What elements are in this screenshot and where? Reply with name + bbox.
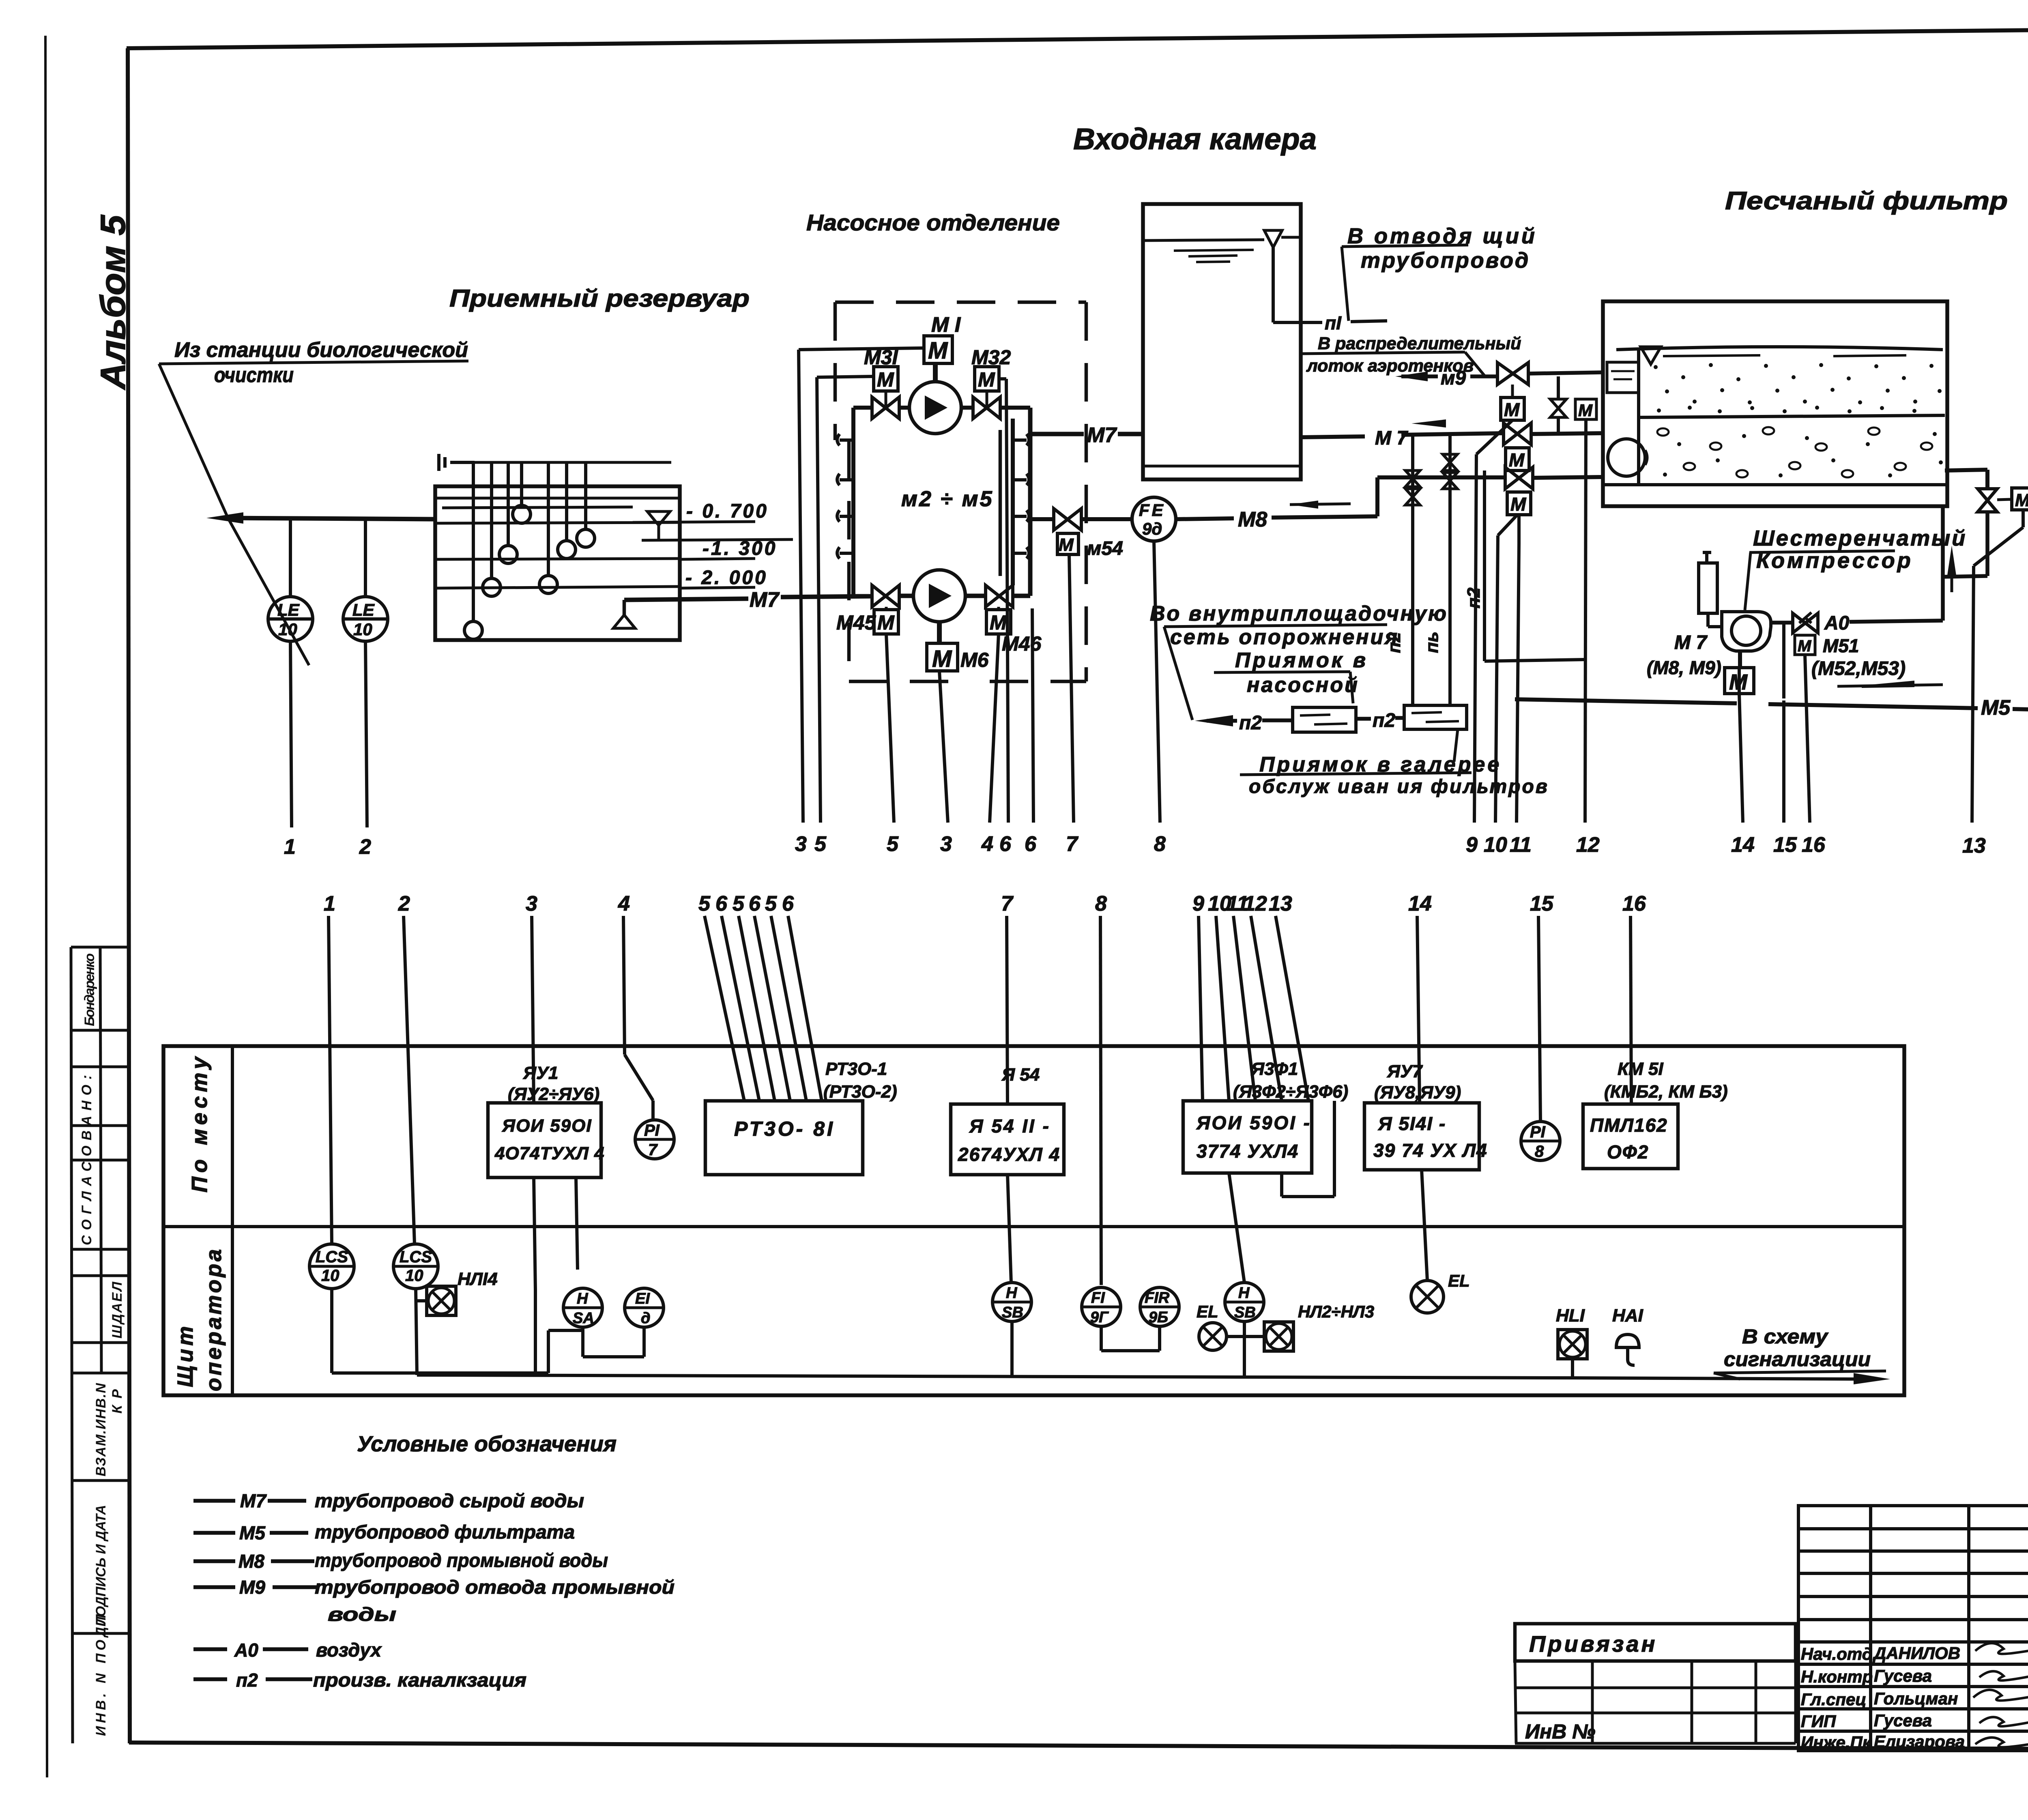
svg-text:M: M: [1798, 637, 1812, 655]
svg-text:10: 10: [278, 620, 297, 639]
svg-text:Бондаренко: Бондаренко: [82, 953, 97, 1026]
M5 line: [1515, 699, 1737, 703]
valve stack M9: [1497, 363, 1528, 385]
svg-text:м2 ÷ м5: м2 ÷ м5: [901, 487, 994, 511]
signature grid column: [1798, 1506, 2028, 1751]
EL lamp left of HL2: [1199, 1323, 1227, 1350]
PI 8 circle: [1521, 1122, 1560, 1160]
svg-text:8: 8: [1095, 892, 1107, 915]
table frame: [163, 1046, 1904, 1395]
LCS circles: [309, 1244, 354, 1289]
svg-text:14: 14: [1731, 833, 1755, 857]
svg-text:НLI: НLI: [1556, 1306, 1585, 1326]
svg-text:7: 7: [1001, 892, 1014, 915]
svg-text:H: H: [577, 1290, 589, 1307]
svg-text:ЯОИ 59OI -: ЯОИ 59OI -: [1196, 1112, 1311, 1133]
svg-text:НАI: НАI: [1612, 1306, 1643, 1326]
inlet pipe with arrow: [206, 512, 243, 524]
svg-text:(ЯУ2÷ЯУ6): (ЯУ2÷ЯУ6): [508, 1084, 599, 1104]
svg-text:12: 12: [1576, 833, 1600, 857]
wire stubs from terminals into panel: [329, 916, 1631, 1285]
svg-text:ЕI: ЕI: [635, 1290, 650, 1307]
privyazan cell: [1515, 1624, 1796, 1661]
sand filter tank outer: [1603, 301, 1947, 506]
svg-text:9Г: 9Г: [1090, 1309, 1109, 1326]
svg-text:Шестеренчатый: Шестеренчатый: [1753, 526, 1967, 550]
svg-text:5: 5: [814, 832, 827, 856]
svg-text:5: 5: [765, 892, 777, 915]
svg-text:9д: 9д: [1142, 519, 1162, 538]
svg-text:воды: воды: [328, 1603, 396, 1625]
svg-text:6: 6: [999, 832, 1012, 856]
bypass small valve on vertical: [1550, 399, 1566, 417]
svg-text:Из станции биологической: Из станции биологической: [174, 338, 468, 362]
svg-text:очистки: очистки: [214, 363, 294, 387]
water level mark funnel: [647, 511, 670, 540]
wiring in operator row: [332, 1101, 1573, 1378]
svg-text:Щит: Щит: [173, 1323, 198, 1387]
svg-text:3: 3: [526, 892, 537, 915]
p2 arrow and sumps: [1195, 715, 1233, 726]
svg-text:М8: М8: [1238, 508, 1267, 531]
svg-text:НЛI4: НЛI4: [458, 1269, 498, 1289]
svg-text:ЕL: ЕL: [1197, 1302, 1218, 1321]
svg-text:M: M: [877, 611, 895, 634]
overflow funnel: [1264, 230, 1282, 247]
svg-text:4: 4: [618, 892, 630, 915]
svg-text:PI: PI: [644, 1122, 660, 1139]
H/SB circle 2: [1225, 1283, 1264, 1321]
svg-text:9Б: 9Б: [1149, 1309, 1168, 1326]
svg-text:Я 54 II -: Я 54 II -: [969, 1115, 1051, 1137]
svg-text:OФ2: OФ2: [1607, 1141, 1649, 1162]
FI and FIR circles: [1082, 1287, 1121, 1326]
svg-text:(РТ3O-2): (РТ3O-2): [823, 1082, 897, 1102]
frame bottom border: [129, 1743, 2028, 1751]
HL2-HL3 lamp: [1264, 1322, 1293, 1351]
svg-text:M: M: [928, 337, 948, 364]
svg-text:трубопровод: трубопровод: [1361, 248, 1530, 273]
svg-text:M: M: [877, 368, 894, 391]
svg-text:Н.контр: Н.контр: [1801, 1667, 1873, 1686]
pipe cross-section circle: [1608, 439, 1645, 476]
svg-text:Гусева: Гусева: [1874, 1711, 1932, 1730]
svg-text:M: M: [1510, 494, 1527, 515]
svg-text:ПМЛ162: ПМЛ162: [1590, 1115, 1668, 1136]
svg-text:Я3Ф1: Я3Ф1: [1251, 1059, 1298, 1079]
svg-text:оператора: оператора: [202, 1247, 226, 1391]
node terminal numbers row 1: [795, 832, 1600, 857]
svg-text:14: 14: [1408, 892, 1432, 915]
compressor volute: [1722, 612, 1771, 651]
piping bottom row: [853, 594, 872, 599]
p2 drain verticals with small valves: [1405, 434, 1457, 705]
svg-text:А0: А0: [234, 1640, 258, 1661]
svg-text:6: 6: [715, 892, 728, 915]
svg-text:М7: М7: [750, 588, 780, 612]
electrodes with ball tips: [464, 462, 595, 639]
svg-text:(КМБ2, КМ Б3): (КМБ2, КМ Б3): [1604, 1082, 1728, 1102]
svg-text:3: 3: [795, 832, 807, 856]
svg-text:- 0. 700: - 0. 700: [686, 501, 769, 522]
svg-text:11: 11: [1510, 833, 1532, 857]
svg-text:Входная камера: Входная камера: [1073, 122, 1317, 156]
svg-text:Альбом 5: Альбом 5: [94, 215, 133, 390]
svg-text:9: 9: [1192, 892, 1204, 915]
box RT30-81: [705, 1101, 863, 1175]
svg-text:EL: EL: [1448, 1271, 1470, 1290]
electrode hanger bus: [475, 461, 671, 464]
svg-text:PI: PI: [1530, 1123, 1546, 1141]
svg-text:М9: М9: [239, 1577, 265, 1598]
svg-text:обслуж иван ия фильтров: обслуж иван ия фильтров: [1249, 776, 1549, 797]
svg-text:H: H: [1238, 1285, 1250, 1302]
svg-text:РТ3O- 8I: РТ3O- 8I: [734, 1117, 835, 1140]
svg-text:М6: М6: [960, 649, 989, 671]
filter outlet pipe and valve (right): [1945, 470, 1987, 471]
svg-text:-1. 300: -1. 300: [702, 538, 777, 559]
M7 offtake with strainer: [623, 600, 626, 615]
svg-text:Нач.отд.: Нач.отд.: [1801, 1644, 1877, 1663]
sheet outer left edge: [45, 36, 47, 1777]
svg-text:Елизарова: Елизарова: [1874, 1732, 1965, 1751]
signatures: [1801, 1644, 1965, 1752]
dashed pump room boundary: [835, 302, 1086, 681]
discharge header right with hooks: [1011, 419, 1015, 585]
svg-text:трубопровод фильтрата: трубопровод фильтрата: [315, 1521, 575, 1543]
motor box below: [1725, 668, 1754, 694]
svg-text:ИнВ №: ИнВ №: [1525, 1720, 1595, 1743]
svg-text:п2: п2: [1373, 710, 1395, 731]
svg-text:трубопровод сырой воды: трубопровод сырой воды: [315, 1490, 584, 1511]
svg-text:10: 10: [1484, 833, 1507, 857]
fine sand stipple: [1654, 363, 1942, 413]
svg-text:M: M: [2015, 490, 2028, 510]
svg-text:M: M: [1059, 535, 1074, 555]
intake filter capsule: [1699, 563, 1717, 613]
svg-text:пI: пI: [1325, 312, 1342, 333]
svg-text:- 2. 000: - 2. 000: [685, 567, 768, 589]
valve M46: [986, 585, 1013, 607]
sand layer boundary: [1639, 415, 1945, 417]
svg-text:сеть опорожнения: сеть опорожнения: [1170, 625, 1399, 649]
svg-text:ПОДПИСЬ И ДАТА: ПОДПИСЬ И ДАТА: [93, 1505, 109, 1627]
svg-text:ВЗАМ.ИНВ.N: ВЗАМ.ИНВ.N: [93, 1383, 109, 1476]
svg-text:ЯОИ 59OI: ЯОИ 59OI: [502, 1116, 592, 1136]
svg-text:В схему: В схему: [1742, 1325, 1828, 1348]
svg-text:16: 16: [1802, 833, 1826, 857]
inner left trough: [1637, 350, 1640, 485]
svg-text:ГИП: ГИП: [1801, 1712, 1836, 1731]
svg-text:М8: М8: [238, 1551, 264, 1572]
H/SB circle 1: [993, 1283, 1031, 1321]
svg-text:FE: FE: [1139, 501, 1166, 520]
svg-text:пь: пь: [1422, 632, 1442, 653]
svg-text:15: 15: [1530, 892, 1554, 915]
svg-text:16: 16: [1622, 892, 1646, 915]
svg-text:SB: SB: [1002, 1304, 1023, 1321]
HL14 lamp: [427, 1286, 456, 1315]
valve M32: [973, 397, 1000, 419]
svg-text:М 7: М 7: [1674, 632, 1708, 653]
svg-text:H: H: [1006, 1285, 1018, 1302]
svg-text:7: 7: [648, 1141, 658, 1159]
svg-text:М5: М5: [1981, 696, 2011, 720]
svg-text:(М8, М9): (М8, М9): [1647, 657, 1721, 678]
wire M1 motor to terminal 3: [799, 348, 1586, 823]
svg-text:9: 9: [1466, 833, 1478, 857]
svg-text:Я 54: Я 54: [1001, 1065, 1040, 1085]
ground symbol: [439, 454, 475, 471]
svg-text:М32: М32: [971, 346, 1011, 369]
pump P1 (top): [909, 382, 961, 434]
svg-text:3774 УХЛ4: 3774 УХЛ4: [1197, 1141, 1299, 1162]
svg-text:13: 13: [1269, 892, 1292, 915]
svg-text:РТ3O-1: РТ3O-1: [825, 1059, 887, 1079]
box Ya5141: [1364, 1103, 1479, 1170]
svg-text:SA: SA: [573, 1310, 594, 1327]
svg-text:НЛ2÷НЛ3: НЛ2÷НЛ3: [1298, 1302, 1374, 1321]
svg-text:м9: м9: [1441, 367, 1466, 389]
M8 to filter bottom: [1377, 475, 1505, 479]
svg-text:(М52,М53): (М52,М53): [1811, 658, 1906, 679]
box YAOI 5901 4074: [488, 1103, 601, 1178]
input chamber tank: [1143, 204, 1301, 479]
svg-text:ЯУ7: ЯУ7: [1387, 1061, 1423, 1081]
svg-text:Компрессор: Компрессор: [1756, 548, 1913, 573]
M7 top run to chamber: [1030, 432, 1084, 436]
svg-text:м54: м54: [1087, 538, 1123, 559]
svg-text:39 74 УХ Л4: 39 74 УХ Л4: [1373, 1140, 1488, 1161]
svg-text:Песчаный фильтр: Песчаный фильтр: [1725, 187, 2008, 215]
svg-text:10: 10: [353, 620, 372, 639]
signal lines down to numbers 1,2: [290, 641, 292, 827]
svg-text:М 7: М 7: [1375, 428, 1408, 449]
valve M31: [872, 397, 899, 419]
svg-text:Привязан: Привязан: [1529, 1631, 1657, 1657]
FE flow element circle: [1132, 497, 1176, 541]
svg-text:Инже.Пк: Инже.Пк: [1801, 1733, 1872, 1752]
svg-text:2: 2: [398, 892, 410, 915]
svg-text:В распределительный: В распределительный: [1318, 334, 1521, 353]
svg-text:п2: п2: [236, 1670, 258, 1691]
svg-text:Гольцман: Гольцман: [1874, 1689, 1958, 1708]
svg-text:Условные обозначения: Условные обозначения: [357, 1432, 617, 1456]
svg-text:Я 5I4I -: Я 5I4I -: [1378, 1113, 1446, 1134]
M54 branch with valve: [1030, 517, 1054, 521]
svg-text:М7: М7: [240, 1490, 267, 1511]
left stamp column cells: [71, 947, 130, 1743]
svg-text:3: 3: [940, 832, 952, 856]
M9 arrow and line: [1395, 372, 1428, 381]
svg-text:Гусева: Гусева: [1874, 1666, 1932, 1685]
svg-text:произв. каналкзация: произв. каналкзация: [313, 1669, 526, 1691]
pump room piping top row: [853, 406, 872, 410]
svg-text:М45: М45: [836, 611, 876, 634]
frame left border: [128, 48, 130, 1743]
svg-text:13: 13: [1962, 834, 1986, 857]
svg-text:8: 8: [1154, 832, 1166, 856]
suction header left with strainer hooks: [851, 408, 855, 596]
frame top border: [127, 25, 2028, 48]
signal arrow to alarm scheme: [1854, 1373, 1890, 1384]
svg-text:Приямок в: Приямок в: [1235, 649, 1368, 672]
svg-text:трубопровод промывной воды: трубопровод промывной воды: [315, 1549, 608, 1571]
motor M1: [924, 336, 952, 363]
svg-text:15: 15: [1773, 833, 1797, 857]
LE instrument circles: [268, 518, 388, 641]
svg-text:6: 6: [1025, 832, 1037, 856]
svg-text:SB: SB: [1234, 1304, 1256, 1321]
svg-text:М5: М5: [239, 1522, 266, 1543]
svg-text:М I: М I: [931, 313, 961, 337]
svg-text:(ЯУ8,ЯУ9): (ЯУ8,ЯУ9): [1374, 1083, 1461, 1102]
level step lines extending right with labels: [633, 522, 755, 522]
node terminal numbers row 2: [324, 892, 1646, 915]
svg-text:насосной: насосной: [1247, 673, 1359, 697]
svg-text:10: 10: [321, 1267, 339, 1285]
svg-text:4O74ТУХЛ 4: 4O74ТУХЛ 4: [494, 1143, 605, 1163]
gravel layer stipple: [1657, 427, 1932, 477]
svg-text:Гл.спец: Гл.спец: [1801, 1690, 1866, 1709]
svg-text:12: 12: [1244, 892, 1267, 915]
svg-text:LCS: LCS: [316, 1248, 348, 1266]
valve M45: [872, 585, 899, 607]
svg-text:п2: п2: [1464, 587, 1484, 608]
svg-text:сигнализации: сигнализации: [1724, 1348, 1871, 1371]
svg-text:воздух: воздух: [316, 1639, 382, 1661]
svg-text:M: M: [1504, 399, 1520, 420]
svg-text:5: 5: [698, 892, 711, 915]
svg-text:п2: п2: [1239, 712, 1262, 734]
svg-text:1: 1: [284, 835, 296, 859]
svg-text:M: M: [932, 646, 952, 672]
HL1 lamp: [1558, 1330, 1587, 1359]
svg-text:трубопровод отвода промывной: трубопровод отвода промывной: [315, 1576, 675, 1598]
svg-text:Насосное отделение: Насосное отделение: [806, 210, 1060, 235]
svg-text:10: 10: [405, 1267, 423, 1285]
svg-text:7: 7: [1066, 832, 1078, 856]
svg-text:LE: LE: [277, 600, 300, 619]
PI 7 circle: [635, 1120, 674, 1159]
svg-text:4: 4: [981, 832, 993, 856]
svg-text:1: 1: [324, 892, 335, 915]
svg-text:M: M: [978, 368, 995, 391]
svg-text:ИНВ. N ПОДЛ: ИНВ. N ПОДЛ: [93, 1614, 109, 1736]
box YAOI 5901-3774: [1183, 1101, 1312, 1173]
box PML162: [1583, 1104, 1678, 1169]
svg-text:М51: М51: [1823, 635, 1859, 656]
svg-text:КМ 5I: КМ 5I: [1618, 1059, 1663, 1079]
svg-text:8: 8: [1535, 1143, 1544, 1160]
inlet funnel: [1641, 347, 1661, 364]
svg-text:M: M: [990, 611, 1007, 634]
svg-text:Во внутриплощадочную: Во внутриплощадочную: [1150, 602, 1448, 625]
water surface: [1616, 347, 1943, 350]
svg-text:LCS: LCS: [400, 1248, 432, 1266]
svg-text:М7: М7: [1087, 423, 1117, 447]
svg-text:По месту: По месту: [187, 1053, 212, 1193]
svg-text:2674УХЛ 4: 2674УХЛ 4: [958, 1144, 1060, 1165]
pump P2 (bottom): [913, 570, 965, 622]
motor M6 below pump2: [927, 643, 958, 671]
svg-text:FI: FI: [1091, 1289, 1105, 1306]
discharge to AO valve: [1771, 621, 1793, 625]
svg-text:5: 5: [733, 892, 745, 915]
svg-text:5: 5: [887, 832, 899, 856]
svg-text:(Я3Ф2÷Я3Ф6): (Я3Ф2÷Я3Ф6): [1233, 1082, 1348, 1102]
svg-text:M: M: [1509, 449, 1525, 471]
svg-text:ШДАЕЛ: ШДАЕЛ: [110, 1281, 125, 1339]
svg-text:6: 6: [782, 892, 794, 915]
signal drops 14,15,16,13: [1739, 694, 1743, 823]
svg-text:2: 2: [359, 835, 371, 859]
H/SA and EI circles: [563, 1288, 602, 1327]
svg-text:6: 6: [749, 892, 761, 915]
svg-text:А0: А0: [1824, 612, 1850, 634]
P1 drain line: [1273, 321, 1322, 324]
svg-text:ЯУ1: ЯУ1: [523, 1063, 558, 1083]
discharge vertical pipe to M7: [1028, 434, 1033, 596]
svg-text:д: д: [641, 1310, 651, 1327]
svg-text:Приемный резервуар: Приемный резервуар: [449, 285, 750, 312]
receiving reservoir tank: [435, 486, 680, 640]
box Ya54II: [951, 1104, 1064, 1175]
EL lamp under Ya5141: [1411, 1281, 1444, 1313]
svg-text:ДАНИЛОВ: ДАНИЛОВ: [1873, 1644, 1960, 1663]
svg-text:FIR: FIR: [1145, 1289, 1170, 1306]
svg-text:M: M: [1578, 401, 1593, 420]
AO riser to filter outlet valve: [1941, 508, 1945, 621]
HA1 horn: [1616, 1334, 1639, 1347]
svg-text:LE: LE: [352, 600, 375, 619]
